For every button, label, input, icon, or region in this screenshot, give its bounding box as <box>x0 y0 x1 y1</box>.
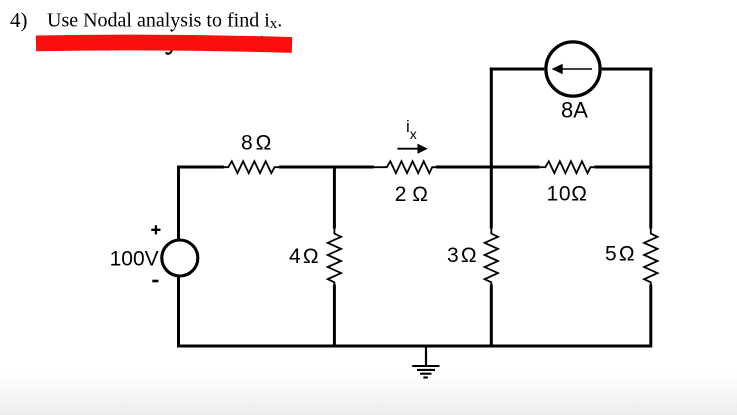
redacted text fragment: y descender below marker bar <box>166 49 172 53</box>
wire: 8A top loop, right of source <box>602 68 653 71</box>
wire: bottom rail <box>179 345 651 348</box>
arrow inside current source (head) <box>552 64 563 74</box>
wire: middle vertical below 4-ohm <box>333 285 336 348</box>
resistor 8-ohm <box>223 161 279 173</box>
resistor 2-ohm <box>374 161 437 173</box>
wire: left vertical (lower) <box>177 277 180 348</box>
svg-text:4): 4) <box>10 8 28 32</box>
redacted text fragment: speck on top edge of marker bar <box>261 36 263 37</box>
svg-text:3Ω: 3Ω <box>447 244 479 267</box>
wire: middle vertical above 4-ohm (node A drop) <box>333 166 336 229</box>
wire: left vertical (upper) <box>177 166 180 240</box>
polarity minus sign <box>152 280 158 283</box>
svg-text:5Ω: 5Ω <box>605 243 637 266</box>
svg-text:100V: 100V <box>110 247 159 270</box>
wire: right vertical above 5-ohm <box>649 68 652 229</box>
polarity plus sign <box>151 225 160 234</box>
svg-text:Use Nodal analysis to find ix.: Use Nodal analysis to find ix. <box>47 10 282 32</box>
ground <box>412 347 439 378</box>
current direction arrow for ix (head) <box>418 144 428 154</box>
wire: top rail segment 2 <box>279 166 374 169</box>
svg-text:2 Ω: 2 Ω <box>395 183 428 206</box>
current direction arrow for ix (shaft) <box>397 148 419 150</box>
resistor 5-ohm (vertical) <box>644 228 657 285</box>
svg-text:8Ω: 8Ω <box>241 132 274 155</box>
wire: top rail segment 1 <box>179 166 224 169</box>
svg-text:4Ω: 4Ω <box>289 245 321 268</box>
redacted text fragment: ascender tick above marker bar <box>171 30 172 32</box>
wire: node vertical below 3-ohm <box>490 285 493 348</box>
svg-text:10Ω: 10Ω <box>547 182 588 205</box>
arrow inside current source (shaft) <box>562 68 593 70</box>
wire: right vertical below 5-ohm <box>649 285 652 348</box>
voltage source 100V (circle) <box>162 240 198 276</box>
resistor 10-ohm <box>539 161 594 173</box>
svg-text:8A: 8A <box>561 98 588 123</box>
current source 8A (circle) <box>546 42 600 96</box>
bottom page-edge gradient <box>0 372 737 415</box>
wire: top rail segment 4 <box>594 166 652 169</box>
red redaction marker bar <box>36 43 292 46</box>
resistor 3-ohm (vertical) <box>485 228 498 285</box>
wire: 8A top loop, left of source <box>490 68 544 71</box>
wire: top rail segment 3 <box>436 166 539 169</box>
resistor 4-ohm (vertical) <box>328 228 341 285</box>
wire: node vertical above 3-ohm (up to 8A loop, crosses top rail) <box>490 68 493 229</box>
